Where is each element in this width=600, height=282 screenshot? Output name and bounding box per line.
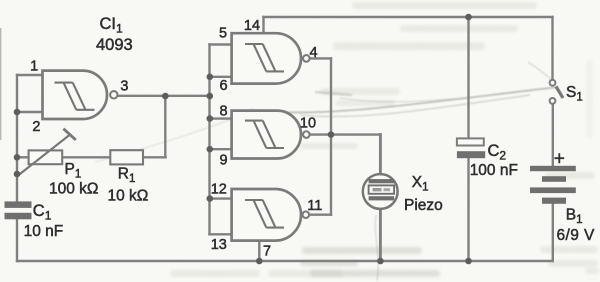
svg-text:12: 12 xyxy=(211,182,227,198)
svg-text:+: + xyxy=(554,149,565,170)
svg-text:6: 6 xyxy=(219,78,227,94)
svg-text:1: 1 xyxy=(30,59,38,75)
svg-text:13: 13 xyxy=(211,237,227,253)
svg-text:100 nF: 100 nF xyxy=(470,162,518,179)
svg-text:7: 7 xyxy=(263,243,271,259)
svg-text:10 kΩ: 10 kΩ xyxy=(108,188,149,205)
svg-text:Piezo: Piezo xyxy=(404,197,443,214)
svg-text:4093: 4093 xyxy=(96,36,133,54)
svg-text:3: 3 xyxy=(120,79,128,95)
svg-text:5: 5 xyxy=(219,26,227,42)
svg-text:10 nF: 10 nF xyxy=(24,223,64,240)
svg-text:9: 9 xyxy=(220,153,228,169)
svg-text:6/9 V: 6/9 V xyxy=(557,227,595,244)
svg-text:14: 14 xyxy=(244,18,260,34)
svg-text:8: 8 xyxy=(220,104,228,120)
svg-text:11: 11 xyxy=(307,198,322,214)
svg-text:10: 10 xyxy=(300,116,316,132)
svg-text:100 kΩ: 100 kΩ xyxy=(49,181,99,198)
svg-text:2: 2 xyxy=(32,119,40,135)
svg-text:4: 4 xyxy=(309,45,317,61)
